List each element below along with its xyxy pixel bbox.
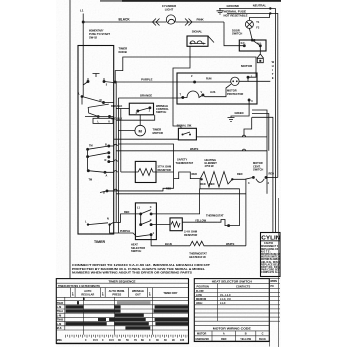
svg-text:C: C [262,333,264,336]
svg-text:OUT: OUT [135,293,141,297]
svg-text:M-S: M-S [57,327,62,330]
svg-text:L1-C: L1-C [220,302,226,305]
svg-text:AUTO: AUTO [84,289,91,293]
svg-text:REPLACE BELT: REPLACE BELT [261,263,280,266]
svg-text:TM: TM [89,145,93,148]
svg-text:GREEN: GREEN [235,112,244,115]
svg-text:NEUTRAL: NEUTRAL [253,4,267,8]
svg-text:TM-B: TM-B [57,302,63,305]
svg-text:H: H [272,64,274,68]
svg-text:COMPLETE ALL: COMPLETE ALL [261,271,280,274]
svg-text:RED: RED [237,172,243,176]
svg-text:THERMOSTAT: THERMOSTAT [206,214,224,218]
svg-text:L1: L1 [80,9,84,13]
svg-text:HEAT: HEAT [131,242,138,246]
svg-text:SW-02: SW-02 [89,36,98,40]
svg-text:AUX.: AUX. [210,91,216,94]
svg-text:RESISTOR: RESISTOR [158,168,171,172]
svg-text:WIRIN: WIRIN [270,281,277,283]
svg-text:MOMENTARY: MOMENTARY [89,29,104,33]
svg-text:TM: TM [89,179,93,182]
svg-text:YELLOW: YELLOW [240,338,251,341]
svg-text:SWITCH: SWITCH [156,110,166,114]
svg-text:E: E [272,76,274,80]
svg-text:SIGNAL: SIGNAL [192,30,203,34]
svg-text:WHITE: WHITE [190,147,199,151]
svg-text:NUMBERS WHEN WRITING ABOUT THI: NUMBERS WHEN WRITING ABOUT THIS DRYER OR… [72,271,192,275]
svg-text:A: A [223,333,225,336]
svg-text:LIGHT: LIGHT [165,8,174,12]
svg-text:L-M: L-M [57,306,61,309]
svg-text:HEAT SELECTOR SWITCH: HEAT SELECTOR SWITCH [212,280,252,284]
svg-text:PURPLE: PURPLE [141,78,152,82]
svg-text:B: B [103,192,105,195]
svg-text:4750 W.: 4750 W. [205,164,215,168]
svg-text:105: 105 [180,339,185,342]
svg-text:SIGNAL SW.: SIGNAL SW. [177,123,193,127]
svg-text:TIMED DRY: TIMED DRY [163,291,177,295]
svg-text:RED: RED [209,182,215,186]
svg-text:HEATER-R W.: HEATER-R W. [189,255,206,259]
svg-text:SWITCH: SWITCH [131,249,141,253]
svg-text:TM-A: TM-A [57,310,63,313]
svg-text:CONTACTS: CONTACTS [236,285,250,289]
svg-text:WRINKLE: WRINKLE [132,289,144,293]
svg-text:HELICAL WIND: HELICAL WIND [261,261,280,264]
svg-text:N.C.: N.C. [241,42,246,45]
svg-text:PINK: PINK [197,18,205,22]
svg-text:N: N [107,218,109,221]
svg-text:BLUE: BLUE [259,338,266,341]
svg-text:RED: RED [192,172,198,176]
svg-text:CONNECT DRYER TO 120/240 V.A.C: CONNECT DRYER TO 120/240 V.A.C.60 HZ. IN… [72,263,211,267]
svg-text:L-M: L-M [57,323,61,326]
svg-text:MOTOR: MOTOR [197,333,206,336]
svg-text:16.5: 16.5 [109,339,114,342]
svg-text:PO: PO [271,286,275,288]
svg-text:V-L, L1-C: V-L, L1-C [220,294,231,297]
svg-text:LOW: LOW [196,294,202,297]
svg-text:RESISTOR: RESISTOR [184,233,197,237]
svg-text:C: C [150,206,152,209]
svg-text:NOT RESETABLE: NOT RESETABLE [224,13,248,17]
svg-text:MEDIUM: MEDIUM [196,298,206,301]
svg-text:ENERGIZED: ENERGIZED [196,339,210,341]
svg-text:B: B [245,333,247,336]
svg-text:WHITE: WHITE [226,242,235,246]
svg-text:MOTOR: MOTOR [153,131,163,135]
svg-text:MOTOR WIRING CODE: MOTOR WIRING CODE [213,327,251,331]
svg-text:AUTO PERM.: AUTO PERM. [109,289,126,293]
svg-text:MOTOR: MOTOR [241,64,253,68]
svg-text:POSITION: POSITION [197,285,210,289]
svg-text:PROTECTED BY MAXIMUM 30 A. FUS: PROTECTED BY MAXIMUM 30 A. FUSES. ALWAYS… [72,267,205,271]
svg-text:PUSH TO START: PUSH TO START [89,32,110,36]
svg-text:RED: RED [201,183,206,186]
svg-text:BLUE: BLUE [165,242,172,246]
svg-text:M: M [100,99,102,102]
svg-text:RED: RED [166,188,171,191]
svg-text:TIMER SEQUENCE: TIMER SEQUENCE [109,279,136,283]
svg-text:ROTATE BASE W: ROTATE BASE W [261,253,280,256]
svg-text:SELECTOR: SELECTOR [131,246,145,250]
svg-text:TM-B: TM-B [57,319,63,322]
svg-text:PURPLE: PURPLE [120,230,130,233]
svg-text:TIMER: TIMER [94,240,106,244]
svg-text:MIN.: MIN. [57,339,63,342]
svg-text:SWITCH: SWITCH [253,168,263,172]
svg-text:N: N [105,159,107,162]
svg-text:L1-C, V-C: L1-C, V-C [220,298,231,301]
svg-text:HIGH: HIGH [196,302,202,305]
svg-text:SWITCH: SWITCH [232,32,242,36]
svg-text:U: U [108,121,110,124]
svg-text:ORANGE: ORANGE [140,94,152,98]
svg-text:RED: RED [124,211,129,214]
svg-text:PRESS: PRESS [112,293,121,297]
svg-text:REPLACING OR: REPLACING OR [261,248,279,251]
svg-text:RUN: RUN [206,78,212,81]
svg-text:CAUTIO: CAUTIO [264,242,273,245]
svg-text:THERMOSTAT: THERMOSTAT [176,161,194,165]
svg-text:KNOB: KNOB [119,50,127,54]
svg-text:A: A [106,175,108,178]
svg-text:TIMER-ROTATES 1:33 PER MINUTE: TIMER-ROTATES 1:33 PER MINUTE [58,284,100,288]
svg-text:GROUND: GROUND [227,4,239,8]
svg-text:PART NO. BRG: PART NO. BRG [261,266,280,269]
svg-text:PROTECTOR: PROTECTOR [227,92,243,96]
svg-text:FLUFF: FLUFF [196,290,204,293]
svg-text:RED-BLK: RED-BLK [111,105,122,108]
svg-text:THERMOSTAT: THERMOSTAT [189,252,207,256]
svg-text:REGULAR: REGULAR [81,293,94,297]
svg-text:BLACK: BLACK [119,18,131,22]
svg-text:RED: RED [221,338,226,341]
svg-text:15.5: 15.5 [93,339,98,342]
svg-text:L-M: L-M [57,314,61,317]
